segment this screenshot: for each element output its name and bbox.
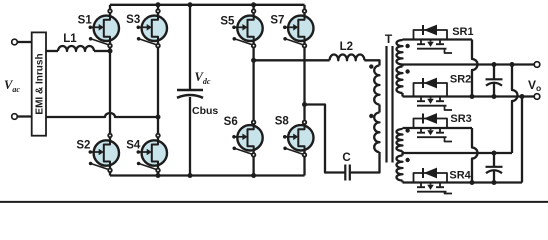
pin ring S2 source <box>108 169 112 173</box>
label Vo <box>528 78 541 93</box>
label L1 <box>63 33 77 45</box>
transistor S7 <box>283 16 313 46</box>
svg-text:SR3: SR3 <box>450 113 471 125</box>
wire cap2 bottom lead <box>493 171 495 183</box>
terminal Vo- <box>534 94 540 100</box>
junction cap1 bottom <box>492 94 497 99</box>
rectifier SR3 (MOSFET + body diode) <box>414 113 453 141</box>
svg-text:S8: S8 <box>275 115 290 127</box>
wire bottom DC rail <box>110 174 305 176</box>
wire S3 source lead / leg2 <box>157 41 159 140</box>
wire node D down to C <box>305 105 345 173</box>
wire S7 drain lead <box>303 5 305 16</box>
pin ring S2 drain <box>108 134 112 138</box>
transformer secondary winding W4 <box>397 156 403 181</box>
svg-text:SR2: SR2 <box>450 74 471 86</box>
transistor S8 <box>283 125 313 155</box>
wire S7 source lead <box>303 41 305 125</box>
transformer T primary winding lower <box>374 113 379 153</box>
label SR4 <box>449 169 471 181</box>
wire W1-W2 tap <box>401 65 403 67</box>
transistor S5 <box>232 16 263 46</box>
polarity dot W4 <box>405 158 409 162</box>
capacitor Cbus <box>177 90 203 98</box>
wire SR1 output down (hop over +rail) <box>472 40 478 97</box>
label S1 <box>78 14 93 26</box>
wire SR3 output down (hop over tap line) <box>472 128 478 183</box>
label SR1 <box>452 26 473 38</box>
pin ring S3 drain <box>156 9 160 13</box>
transistor S1 <box>89 16 120 46</box>
wire cap2 top lead <box>493 153 495 167</box>
wire vertical B (Vo- down to bottom return) <box>521 97 523 183</box>
pin ring S5 drain <box>252 9 256 13</box>
svg-text:C: C <box>342 152 350 164</box>
wire Vo- to terminal <box>522 95 534 97</box>
label T <box>385 32 393 46</box>
junction SR1/SR2 outputs <box>470 94 475 99</box>
wire L1 to node A <box>94 50 110 52</box>
wire lower tap line <box>403 152 513 154</box>
wire output positive rail <box>403 63 535 65</box>
pin ring S3 source <box>156 44 160 48</box>
transistor S2 <box>89 140 120 170</box>
capacitor Co2 <box>486 167 503 173</box>
junction top rail Cbus <box>188 2 193 7</box>
wire S1 source lead / leg1 <box>109 41 111 140</box>
pin ring S1 source <box>108 44 112 48</box>
wire C to primary bottom <box>351 152 380 173</box>
label SR2 <box>450 74 471 86</box>
wire W4 bottom stub <box>401 181 403 183</box>
capacitor C <box>345 165 350 181</box>
wire Cbus top lead <box>189 5 191 89</box>
wire S5 source lead <box>252 41 254 125</box>
svg-text:S4: S4 <box>126 140 141 152</box>
wire SR3 branch <box>403 127 473 129</box>
wire W2 bottom stub <box>401 93 403 97</box>
pin ring S6 drain <box>252 121 256 125</box>
svg-text:EMI & Inrush: EMI & Inrush <box>35 53 46 114</box>
label S3 <box>126 14 140 26</box>
wire primary mid <box>378 105 380 113</box>
label S8 <box>275 115 290 127</box>
inductor L2 <box>330 54 365 60</box>
pin ring S7 source <box>303 44 307 48</box>
rectifier SR4 (MOSFET + body diode) <box>414 168 453 194</box>
AC input terminal top <box>12 39 32 45</box>
transistor S6 <box>232 125 263 155</box>
label S6 <box>224 116 238 128</box>
junction Vo- line / vertical B <box>520 94 525 99</box>
svg-text:SR1: SR1 <box>452 26 473 38</box>
label SR3 <box>450 113 471 125</box>
wire S1 drain lead <box>109 5 111 16</box>
wire S4 source lead <box>157 166 159 176</box>
transformer secondary winding W3 <box>397 129 403 151</box>
svg-text:L2: L2 <box>340 41 353 53</box>
wire S8 source lead <box>303 151 305 176</box>
wire node C to L2 <box>254 59 330 61</box>
svg-text:T: T <box>385 32 393 46</box>
wire L2 to primary top <box>364 60 379 65</box>
polarity dot W2 <box>405 69 409 73</box>
svg-text:S5: S5 <box>220 15 235 27</box>
junction bottom rail leg4 <box>251 173 256 178</box>
transistor S4 <box>137 140 168 170</box>
svg-text:S2: S2 <box>76 139 90 151</box>
label S7 <box>270 14 284 26</box>
AC input terminal bottom <box>12 114 32 120</box>
terminal Vo+ <box>534 62 540 68</box>
svg-text:SR4: SR4 <box>449 169 471 181</box>
figure separator line <box>0 201 548 203</box>
transformer secondary winding W1 <box>396 40 402 64</box>
polarity dot W3 <box>405 128 409 132</box>
wire S6 source lead <box>252 151 254 176</box>
svg-text:S7: S7 <box>270 14 284 26</box>
wire SR1 branch <box>403 38 473 40</box>
rectifier SR2 (MOSFET + body diode) <box>414 78 453 110</box>
pin ring S8 source <box>303 153 307 157</box>
label L2 <box>340 41 353 53</box>
junction rail1 vertical A <box>510 62 515 67</box>
pin ring S5 source <box>252 44 256 48</box>
pin ring S7 drain <box>303 9 307 13</box>
transformer core <box>387 46 393 163</box>
wire S5 drain lead <box>252 5 254 16</box>
node A junction L1/S1/S2 <box>108 49 113 54</box>
node D junction S7/S8/C <box>302 102 307 107</box>
label Cbus <box>192 105 218 117</box>
inductor L1 <box>58 46 94 51</box>
svg-text:Cbus: Cbus <box>192 105 218 117</box>
wire EMI bottom output to S3/S4 midpoint <box>46 113 158 117</box>
EMI & Inrush block <box>32 32 46 135</box>
junction SR3/SR4 outputs <box>470 180 475 185</box>
node B junction EMI/S3/S4 <box>156 115 161 120</box>
label S2 <box>76 139 90 151</box>
junction tap2 cap2 <box>492 151 497 156</box>
rectifier SR1 (MOSFET + body diode) <box>414 25 453 53</box>
junction top rail leg4 <box>251 2 256 7</box>
junction bottom rail leg2 <box>156 173 161 178</box>
label C <box>342 152 350 164</box>
transistor S3 <box>137 16 168 46</box>
wire W3-W4 tap <box>401 151 403 156</box>
capacitor Co1 <box>486 79 503 85</box>
polarity dot W1 <box>405 44 409 48</box>
transformer secondary winding W2 <box>397 67 403 94</box>
pin ring S4 drain <box>156 134 160 138</box>
junction top rail leg2 <box>156 2 161 7</box>
wire cap1 bottom lead <box>493 84 495 97</box>
label Vac <box>4 78 20 94</box>
wire cap1 top lead <box>493 65 495 80</box>
wire vertical A (Vo+ to lower tap, hop over Vo- line) <box>512 65 518 154</box>
wire Cbus bottom lead <box>189 97 191 176</box>
polarity dot primary upper <box>369 64 373 68</box>
wire S2 source lead <box>109 166 111 176</box>
wire W3 top stub <box>401 128 403 129</box>
wire SR2 branch / output negative line <box>403 95 523 97</box>
svg-text:S3: S3 <box>126 14 140 26</box>
pin ring S6 source <box>252 153 256 157</box>
pin ring S8 drain <box>303 121 307 125</box>
wire EMI top output <box>46 50 58 52</box>
node C junction S5/S6/tank <box>251 58 256 63</box>
wire S3 drain lead <box>157 5 159 16</box>
svg-text:S1: S1 <box>78 14 93 26</box>
wire SR4 branch / bottom return line <box>403 181 523 183</box>
svg-text:S6: S6 <box>224 116 238 128</box>
junction rail1 cap1 <box>492 62 497 67</box>
pin ring S1 drain <box>108 9 112 13</box>
pin ring S4 source <box>156 169 160 173</box>
transformer T primary winding upper <box>374 66 379 105</box>
wire top DC rail <box>110 4 305 6</box>
polarity dot primary lower <box>369 114 373 118</box>
junction bottom rail Cbus <box>188 173 193 178</box>
svg-text:L1: L1 <box>63 33 77 45</box>
label S4 <box>126 140 141 152</box>
label Vdc <box>195 70 211 86</box>
label S5 <box>220 15 235 27</box>
junction cap2 bottom <box>492 180 497 185</box>
